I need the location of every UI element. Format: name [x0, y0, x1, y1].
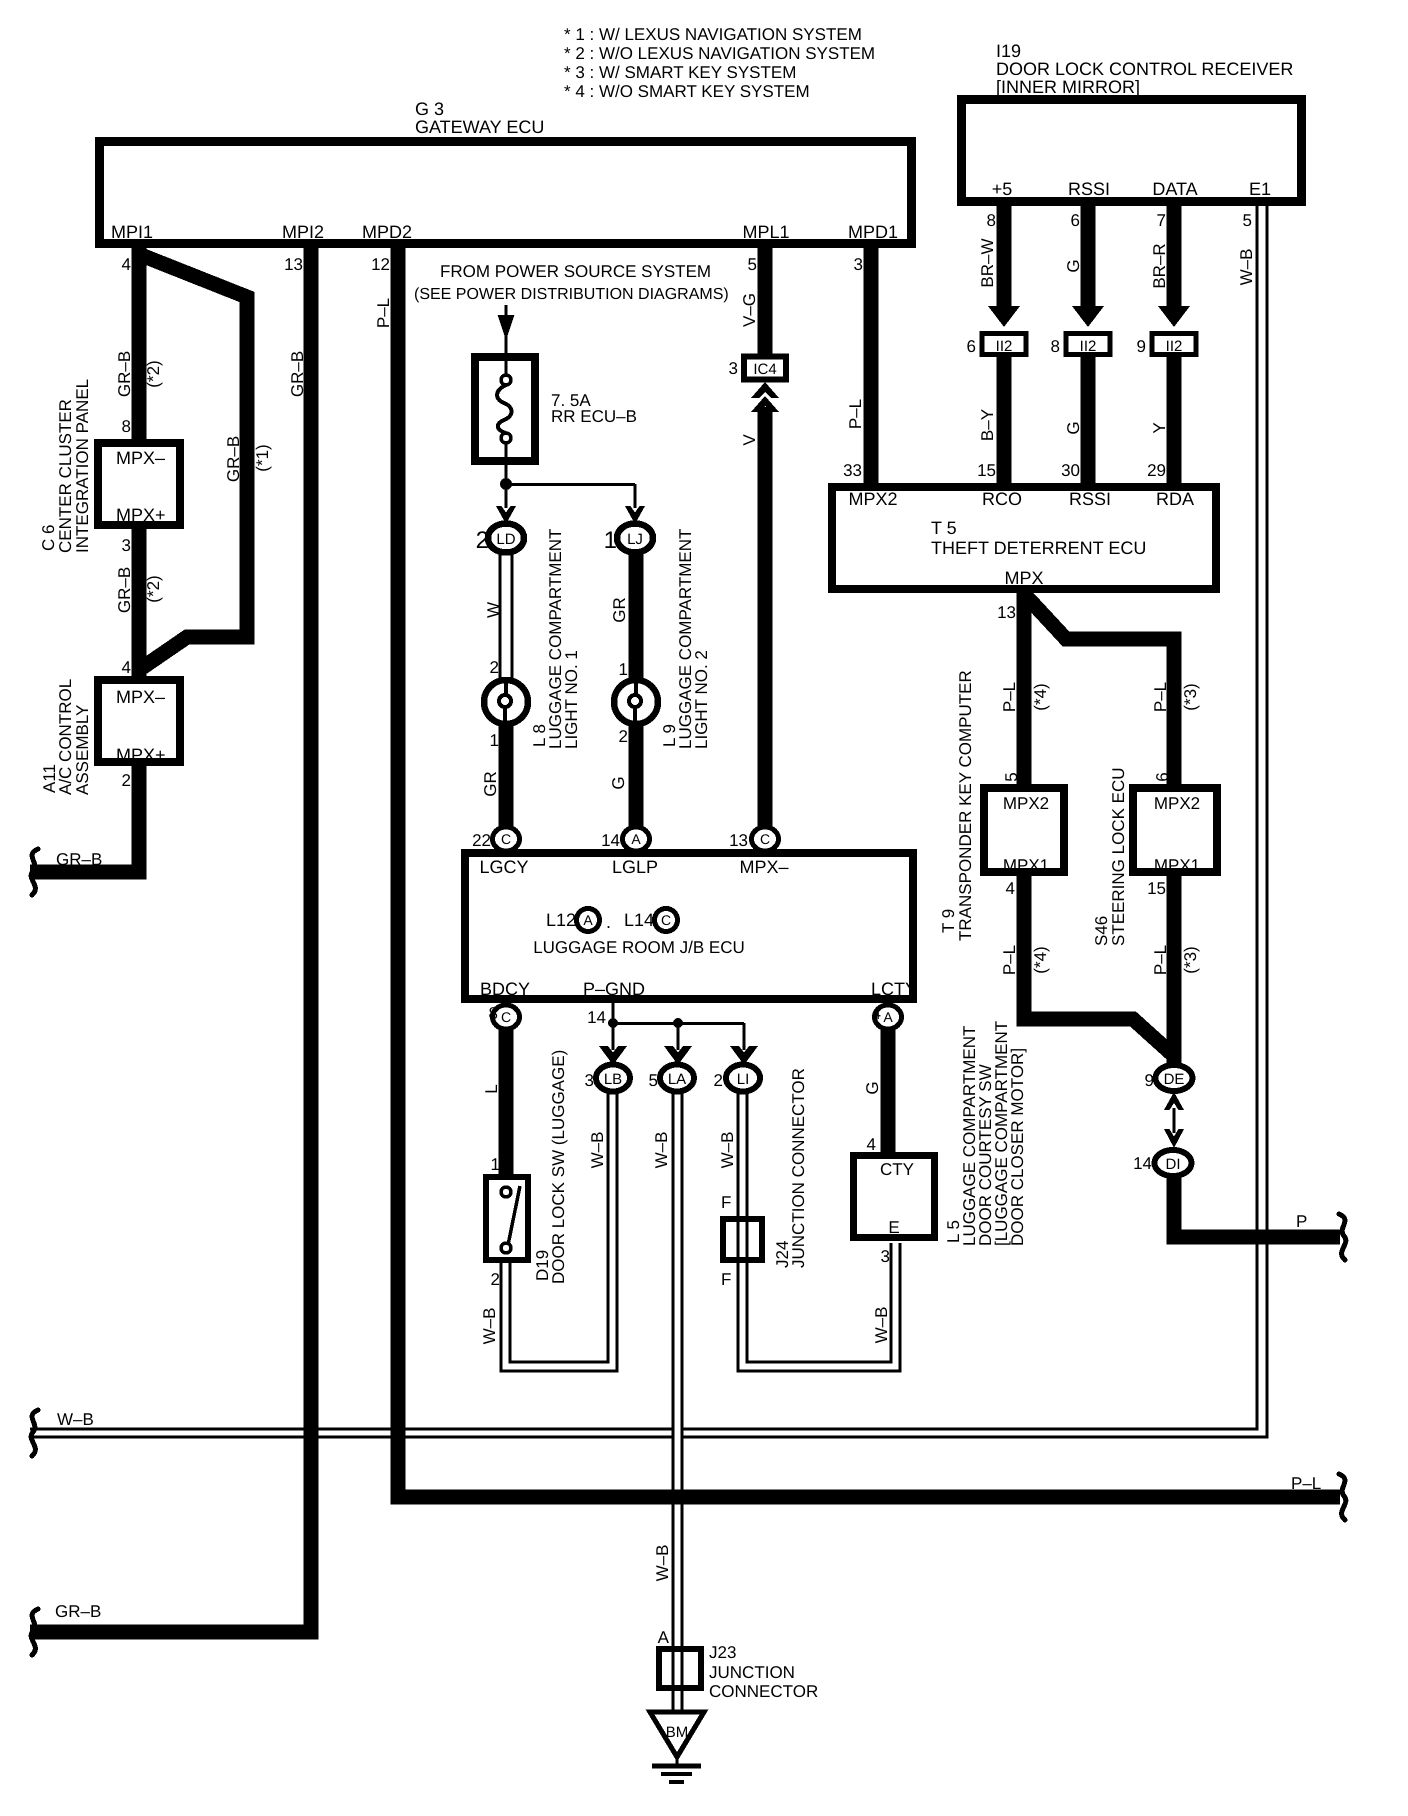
svg-text:A: A [883, 1009, 893, 1025]
svg-text:P–L: P–L [374, 298, 393, 328]
svg-text:13: 13 [284, 255, 303, 274]
luggage compartment light No.2 L9 [614, 529, 711, 749]
svg-text:LIGHT NO. 1: LIGHT NO. 1 [562, 650, 581, 749]
svg-text:DE: DE [1164, 1071, 1185, 1088]
svg-text:12: 12 [371, 255, 390, 274]
svg-text:3: 3 [854, 255, 863, 274]
svg-text:1: 1 [619, 660, 628, 679]
svg-text:W–B: W–B [1237, 249, 1256, 286]
svg-text:MPX2: MPX2 [848, 489, 897, 509]
svg-text:(*3): (*3) [1181, 683, 1200, 710]
wire V IC4 to luggage room MPX- [740, 382, 779, 830]
wire GR-B from MPI2 off page bottom left [30, 248, 311, 1655]
svg-text:C: C [501, 1009, 511, 1025]
svg-text:LGLP: LGLP [612, 857, 658, 877]
svg-text:2: 2 [491, 1270, 500, 1289]
svg-text:C: C [760, 831, 770, 847]
svg-text:C: C [501, 831, 511, 847]
wire GR-B from A11 pin 2 off page left [30, 760, 139, 895]
svg-text:LI: LI [737, 1071, 750, 1088]
svg-text:P–L: P–L [1291, 1474, 1321, 1493]
fuse 7.5A RR ECU-B [475, 357, 637, 461]
connector IC4 pin 3 [729, 357, 786, 380]
svg-text:LCTY: LCTY [871, 979, 917, 999]
connector LI pin 2 [714, 1065, 760, 1092]
svg-text:6: 6 [1153, 772, 1172, 781]
svg-text:RCO: RCO [982, 489, 1022, 509]
from power source system note [414, 262, 729, 357]
svg-text:LUGGAGE ROOM J/B ECU: LUGGAGE ROOM J/B ECU [533, 938, 745, 957]
connector C luggage room pin 22 [472, 827, 519, 851]
svg-text:(SEE POWER DISTRIBUTION DIAGRA: (SEE POWER DISTRIBUTION DIAGRAMS) [414, 286, 729, 303]
svg-text:(*4): (*4) [1031, 946, 1050, 973]
wire P-L from MPD1 to theft ECU MPX2 [843, 248, 871, 483]
svg-text:GATEWAY ECU: GATEWAY ECU [415, 117, 544, 137]
svg-text:IC4: IC4 [753, 361, 776, 378]
svg-text:GR–B: GR–B [56, 850, 102, 869]
connector DI pin 14 [1133, 1150, 1191, 1176]
svg-text:W–B: W–B [588, 1132, 607, 1169]
svg-text:15: 15 [977, 461, 996, 480]
svg-text:2: 2 [714, 1071, 723, 1090]
svg-text:A: A [658, 1628, 670, 1647]
svg-text:1: 1 [491, 1155, 500, 1174]
theft deterrent ECU T5 [832, 487, 1216, 589]
svg-text:GR: GR [481, 771, 500, 797]
wire B-Y II2 to theft ECU RCO [977, 355, 1004, 483]
svg-text:8: 8 [987, 211, 996, 230]
svg-text:DOOR LOCK CONTROL RECEIVER: DOOR LOCK CONTROL RECEIVER [996, 59, 1293, 79]
svg-text:V–G: V–G [740, 293, 759, 327]
svg-text:FROM POWER SOURCE SYSTEM: FROM POWER SOURCE SYSTEM [440, 262, 711, 281]
gateway ECU G3 [100, 99, 912, 244]
svg-text:II2: II2 [996, 338, 1013, 355]
svg-text:4: 4 [872, 1004, 881, 1023]
A/C control assembly A11 [40, 679, 180, 795]
svg-text:8: 8 [1051, 337, 1060, 356]
svg-text:8: 8 [489, 1004, 498, 1023]
svg-text:E: E [888, 1218, 899, 1237]
svg-text:(*1): (*1) [253, 444, 272, 471]
connector A luggage room pin 14 [601, 827, 649, 851]
svg-text:3: 3 [585, 1071, 594, 1090]
svg-text:15: 15 [1147, 879, 1166, 898]
door lock control receiver I19 [962, 41, 1302, 230]
svg-text:3: 3 [729, 359, 738, 378]
wire G L9 to LGLP [609, 723, 636, 830]
svg-text:F: F [721, 1270, 731, 1289]
svg-text:30: 30 [1061, 461, 1080, 480]
svg-text:V: V [740, 434, 759, 446]
svg-text:GR–B: GR–B [115, 351, 134, 397]
svg-text:DATA: DATA [1152, 179, 1197, 199]
svg-text:LB: LB [604, 1071, 622, 1088]
svg-text:4: 4 [1006, 879, 1015, 898]
connector DE pin 9 [1145, 1065, 1193, 1091]
svg-text:MPX–: MPX– [739, 857, 788, 877]
svg-text:5: 5 [748, 255, 757, 274]
svg-text:RSSI: RSSI [1068, 179, 1110, 199]
connector C luggage room MPX- pin 13 [729, 827, 778, 851]
svg-text:14: 14 [601, 831, 620, 850]
svg-text:3: 3 [122, 536, 131, 555]
svg-text:T 5: T 5 [931, 518, 957, 538]
svg-text:5: 5 [649, 1071, 658, 1090]
luggage compartment door courtesy switch L5 [854, 1021, 1028, 1246]
svg-text:1: 1 [490, 731, 499, 750]
svg-text:P–GND: P–GND [583, 979, 645, 999]
svg-text:.: . [606, 912, 611, 932]
svg-text:14: 14 [587, 1008, 606, 1027]
svg-text:E1: E1 [1249, 179, 1271, 199]
svg-text:CONNECTOR: CONNECTOR [709, 1682, 818, 1701]
svg-text:W–B: W–B [872, 1307, 891, 1344]
wire GR-B (*2) C6 to A11 [115, 525, 163, 680]
svg-text:GR–B: GR–B [55, 1602, 101, 1621]
svg-text:4: 4 [867, 1135, 876, 1154]
svg-text:29: 29 [1147, 461, 1166, 480]
door lock switch D19 [486, 1050, 568, 1289]
svg-text:LD: LD [496, 531, 515, 548]
svg-text:MPX2: MPX2 [1154, 794, 1200, 813]
svg-text:GR–B: GR–B [288, 351, 307, 397]
svg-text:LJ: LJ [627, 531, 643, 548]
svg-text:* 1 : W/ LEXUS NAVIGATION SYST: * 1 : W/ LEXUS NAVIGATION SYSTEM [564, 25, 862, 44]
wire P from DI off page right [1174, 1176, 1346, 1260]
svg-text:RDA: RDA [1156, 489, 1194, 509]
connector II2 pin 9 [1137, 334, 1196, 357]
luggage room J/B ECU [465, 853, 917, 999]
svg-text:MPX: MPX [1004, 568, 1043, 588]
wire P-L (*3) S46 MPX1 pin 15 to DE [1147, 872, 1200, 1066]
ground BM [650, 1712, 704, 1782]
svg-text:MPX–: MPX– [116, 448, 165, 468]
svg-text:GR–B: GR–B [115, 567, 134, 613]
connector LA pin 5 [649, 1065, 694, 1092]
svg-text:6: 6 [1071, 211, 1080, 230]
svg-text:W–B: W–B [653, 1545, 672, 1582]
connector A LCTY pin 4 [872, 1004, 902, 1029]
wire from fuse to LD and LJ connectors [496, 461, 645, 524]
wire W-B from P-GND via LA connector to J23 [652, 1092, 682, 1650]
connector C BDCY pin 8 [489, 1004, 520, 1029]
svg-text:W–B: W–B [718, 1132, 737, 1169]
svg-text:G: G [1064, 421, 1083, 434]
svg-text:[INNER MIRROR]: [INNER MIRROR] [996, 77, 1140, 97]
svg-text:5: 5 [1002, 772, 1021, 781]
svg-text:L14: L14 [624, 910, 654, 930]
svg-text:(*2): (*2) [144, 575, 163, 602]
svg-text:II2: II2 [1166, 338, 1183, 355]
wire BR-R DATA to II2 [1150, 206, 1190, 327]
svg-text:GR: GR [610, 597, 629, 623]
svg-text:LGCY: LGCY [479, 857, 528, 877]
connector LB pin 3 [585, 1065, 630, 1092]
svg-text:+5: +5 [992, 179, 1013, 199]
connector LD pin 2 [476, 524, 524, 555]
svg-text:L: L [482, 1084, 501, 1093]
svg-text:THEFT DETERRENT ECU: THEFT DETERRENT ECU [931, 538, 1146, 558]
svg-text:3: 3 [881, 1247, 890, 1266]
svg-text:I19: I19 [996, 41, 1021, 61]
svg-text:ASSEMBLY: ASSEMBLY [73, 705, 92, 795]
steering lock ECU S46 [1092, 767, 1217, 946]
connector II2 pin 6 [967, 334, 1026, 357]
svg-text:MPX+: MPX+ [116, 505, 166, 525]
svg-text:13: 13 [729, 831, 748, 850]
wire G II2 to theft ECU RSSI [1061, 355, 1088, 483]
svg-text:LA: LA [668, 1071, 686, 1088]
svg-text:(*2): (*2) [144, 360, 163, 387]
svg-text:RR ECU–B: RR ECU–B [551, 407, 637, 426]
connector LJ pin 1 [604, 524, 653, 555]
wire GR-B (*1) branch from MPI1 to A11 [136, 255, 272, 672]
svg-text:MPI2: MPI2 [282, 222, 324, 242]
wire L BDCY to door lock switch D19 [482, 1029, 506, 1177]
svg-text:II2: II2 [1080, 338, 1097, 355]
wire BR-W +5 to II2 [978, 206, 1020, 327]
svg-text:MPD2: MPD2 [362, 222, 412, 242]
svg-text:G: G [863, 1081, 882, 1094]
svg-text:P: P [1296, 1212, 1307, 1231]
wire GR L8 to LGCY [481, 723, 506, 830]
svg-text:P–L: P–L [1000, 945, 1019, 975]
svg-text:* 2 : W/O LEXUS NAVIGATION SYS: * 2 : W/O LEXUS NAVIGATION SYSTEM [564, 44, 875, 63]
svg-text:W: W [484, 602, 503, 618]
svg-text:DOOR LOCK SW (LUGGAGE): DOOR LOCK SW (LUGGAGE) [549, 1050, 568, 1284]
svg-text:BDCY: BDCY [480, 979, 530, 999]
wire P-L (*4) T9 MPX1 pin 4 to DE [1000, 872, 1174, 1066]
svg-text:P–L: P–L [1151, 945, 1170, 975]
svg-text:W–B: W–B [57, 1410, 94, 1429]
svg-text:(*3): (*3) [1181, 946, 1200, 973]
wire W-B loop from door lock switch D19 to LB connector [480, 1092, 617, 1371]
svg-text:BM: BM [666, 1724, 689, 1741]
svg-text:DI: DI [1166, 1156, 1181, 1173]
svg-text:9: 9 [1145, 1071, 1154, 1090]
svg-text:14: 14 [1133, 1154, 1152, 1173]
svg-text:P–L: P–L [1151, 682, 1170, 712]
svg-text:4: 4 [122, 658, 131, 677]
svg-text:MPX2: MPX2 [1003, 794, 1049, 813]
wire GR LJ to luggage light L9 [610, 552, 636, 682]
svg-text:B–Y: B–Y [978, 409, 997, 441]
svg-text:TRANSPONDER KEY COMPUTER: TRANSPONDER KEY COMPUTER [956, 670, 975, 941]
transponder key computer T9 [939, 670, 1064, 941]
svg-text:8: 8 [122, 417, 131, 436]
svg-text:INTEGRATION PANEL: INTEGRATION PANEL [73, 379, 92, 553]
svg-text:L12: L12 [546, 910, 576, 930]
junction connector J23 [658, 1628, 819, 1712]
svg-text:F: F [721, 1193, 731, 1212]
wire W-B from E1 pin 5 down right side and across bottom [30, 206, 1267, 1456]
svg-text:W–B: W–B [480, 1308, 499, 1345]
svg-text:P–L: P–L [1000, 682, 1019, 712]
svg-text:J23: J23 [709, 1643, 736, 1662]
svg-text:22: 22 [472, 831, 491, 850]
svg-text:A: A [631, 831, 641, 847]
svg-text:BR–R: BR–R [1150, 243, 1169, 288]
svg-text:1: 1 [604, 527, 617, 554]
wire P-L (*4) theft MPX pin 13 to T9 MPX2 [997, 593, 1050, 788]
luggage compartment light No.1 L8 [484, 529, 581, 749]
svg-text:2: 2 [619, 727, 628, 746]
svg-text:DOOR CLOSER MOTOR]: DOOR CLOSER MOTOR] [1008, 1048, 1027, 1246]
svg-text:2: 2 [122, 771, 131, 790]
wire P-L (*3) branch to S46 MPX2 [1027, 597, 1200, 788]
svg-text:RSSI: RSSI [1069, 489, 1111, 509]
svg-text:MPI1: MPI1 [111, 222, 153, 242]
legend notes [564, 25, 875, 101]
svg-text:W–B: W–B [652, 1132, 671, 1169]
svg-text:7: 7 [1157, 211, 1166, 230]
wire W-B loop from LI connector to CTY pin 3 [718, 1092, 900, 1371]
svg-text:4: 4 [122, 255, 131, 274]
svg-text:Y: Y [1150, 422, 1169, 433]
svg-text:2: 2 [490, 658, 499, 677]
svg-text:13: 13 [997, 603, 1016, 622]
wire G LCTY to CTY [863, 1029, 888, 1155]
wire V-G MPL1 to IC4 [740, 248, 765, 356]
svg-text:G 3: G 3 [415, 99, 444, 119]
svg-text:* 4 : W/O SMART KEY SYSTEM: * 4 : W/O SMART KEY SYSTEM [564, 82, 810, 101]
svg-text:LIGHT NO. 2: LIGHT NO. 2 [692, 650, 711, 749]
svg-text:STEERING LOCK ECU: STEERING LOCK ECU [1109, 767, 1128, 946]
svg-text:JUNCTION: JUNCTION [709, 1663, 795, 1682]
svg-text:JUNCTION CONNECTOR: JUNCTION CONNECTOR [789, 1068, 808, 1268]
svg-text:(*4): (*4) [1031, 683, 1050, 710]
wire P-L from MPD2 off page right [371, 248, 1346, 1520]
svg-text:2: 2 [476, 527, 489, 554]
junction connector J24 [723, 1068, 808, 1268]
svg-text:MPL1: MPL1 [742, 222, 789, 242]
svg-text:MPD1: MPD1 [848, 222, 898, 242]
svg-text:* 3 : W/ SMART KEY SYSTEM: * 3 : W/ SMART KEY SYSTEM [564, 63, 796, 82]
svg-text:33: 33 [843, 461, 862, 480]
svg-text:CTY: CTY [880, 1160, 914, 1179]
svg-text:BR–W: BR–W [978, 238, 997, 287]
svg-text:P–L: P–L [846, 399, 865, 429]
wire GR-B (*2) MPI1 to C6 [115, 248, 163, 443]
svg-text:G: G [609, 776, 628, 789]
svg-text:G: G [1064, 259, 1083, 272]
connector II2 pin 8 [1051, 334, 1110, 357]
svg-text:MPX–: MPX– [116, 687, 165, 707]
wire W LD to luggage light L8 [484, 552, 512, 682]
svg-text:C: C [661, 912, 671, 928]
svg-text:9: 9 [1137, 337, 1146, 356]
svg-text:6: 6 [967, 337, 976, 356]
wire between DE and DI [1164, 1092, 1184, 1148]
svg-text:5: 5 [1243, 211, 1252, 230]
svg-text:A: A [583, 912, 593, 928]
svg-text:GR–B: GR–B [224, 436, 243, 482]
wire P-GND junction to LB LA LI [587, 1003, 758, 1065]
center cluster integration panel C6 [39, 379, 180, 553]
wire G RSSI to II2 [1064, 206, 1104, 327]
wire Y II2 to theft ECU RDA [1147, 355, 1174, 483]
